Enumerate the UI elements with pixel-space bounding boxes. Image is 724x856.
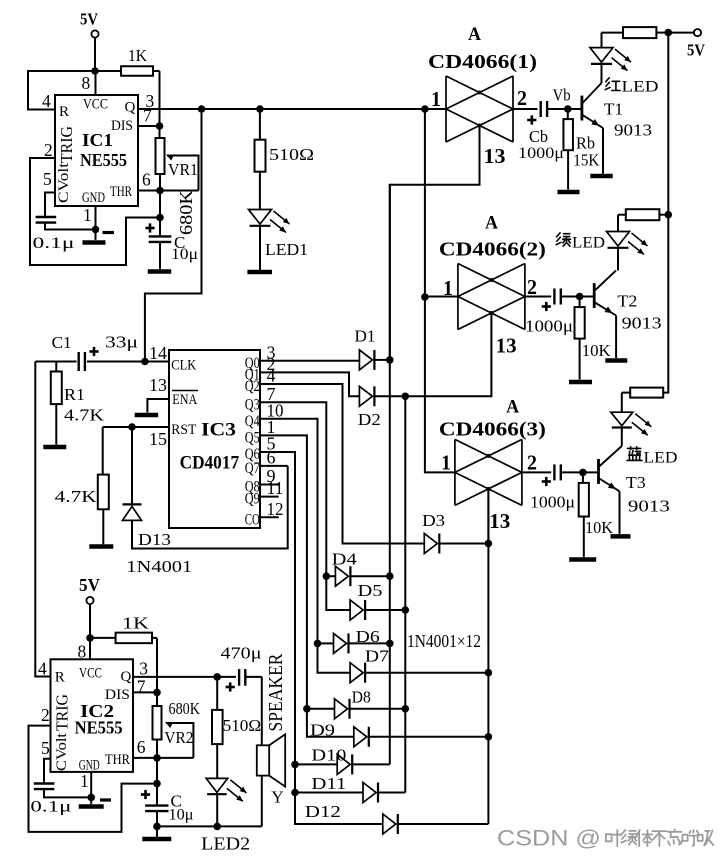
- svg-text:510Ω: 510Ω: [223, 716, 262, 735]
- wire D13 to Q7: [132, 466, 288, 549]
- svg-text:THR: THR: [110, 184, 132, 200]
- svg-text:C1: C1: [52, 333, 72, 352]
- svg-text:33μ: 33μ: [105, 333, 138, 352]
- svg-text:IC3: IC3: [201, 420, 236, 441]
- label LED red text: [622, 79, 659, 96]
- diode D13 1N4001: [123, 427, 193, 576]
- power 5V terminal (IC2): [79, 575, 100, 604]
- ground Rb: [558, 190, 580, 195]
- ground T3 emitter: [611, 534, 631, 539]
- svg-text:1000μ: 1000μ: [525, 317, 573, 336]
- svg-text:10K: 10K: [585, 518, 614, 537]
- svg-text:1000μ: 1000μ: [518, 145, 564, 162]
- label pin13 4066-3: [489, 509, 510, 533]
- svg-text:10K: 10K: [582, 341, 612, 360]
- wire 4066 control input rail: [425, 109, 456, 472]
- wire Q2 to D3: [260, 384, 424, 544]
- label pin3 IC3: [267, 342, 276, 362]
- wire DIS IC2: [133, 691, 157, 693]
- label 680K VR1: [176, 190, 196, 235]
- diode D8: [335, 699, 350, 719]
- label pin4 IC2: [38, 659, 47, 679]
- label CD4066(2): [439, 239, 546, 261]
- svg-text:CVolt: CVolt: [56, 162, 72, 203]
- label green char: [556, 233, 570, 246]
- node ch1-D1: [386, 356, 394, 364]
- node ch3-D7: [485, 669, 493, 677]
- node ch3-D9: [485, 733, 493, 741]
- ground IC2 pin1: [79, 800, 111, 807]
- svg-text:6: 6: [137, 737, 146, 757]
- wire CLK pin14: [145, 361, 169, 363]
- wire D9 out: [369, 736, 489, 738]
- svg-text:VCC: VCC: [79, 666, 102, 682]
- label pin13 IC3: [149, 375, 167, 395]
- label pin7 IC1: [143, 106, 152, 126]
- analog switch U-CD4066(3): [455, 439, 522, 505]
- node ground node IC2: [153, 823, 161, 831]
- label Q IC2: [121, 669, 132, 685]
- label D3 name: [422, 511, 445, 530]
- label A row1: [468, 24, 481, 45]
- label DIS IC1: [111, 118, 133, 134]
- wire Q6 to D11 branch: [295, 792, 363, 794]
- svg-text:Q: Q: [121, 669, 132, 685]
- wire pin1 GND IC2: [90, 772, 92, 804]
- label GND IC2: [79, 758, 100, 774]
- transistor T3 9013: [583, 446, 670, 534]
- node ch1-D6: [386, 640, 394, 648]
- svg-text:1: 1: [80, 771, 89, 791]
- label pin3 IC1: [146, 91, 155, 111]
- transistor T1 9013: [568, 83, 652, 174]
- potentiometer VR1 680K: [156, 126, 199, 191]
- svg-text:D6: D6: [356, 627, 380, 646]
- wire D2 out: [374, 395, 405, 397]
- svg-text:T3: T3: [626, 473, 646, 492]
- label THR IC1: [110, 184, 132, 200]
- label Q1 IC3: [245, 366, 260, 383]
- node Q6-D10 node: [291, 761, 299, 769]
- svg-text:4.7K: 4.7K: [64, 406, 105, 425]
- analog switch U-CD4066(1): [446, 76, 513, 142]
- svg-text:5V: 5V: [80, 10, 99, 29]
- svg-text:5: 5: [43, 169, 52, 189]
- label CVolt IC1: [56, 162, 72, 203]
- node rail row2 resistor: [665, 211, 673, 219]
- resistor LED1k row2: [618, 209, 668, 220]
- node CLK node: [141, 358, 149, 366]
- node ch2-D2: [402, 393, 410, 401]
- label pin14 IC3: [149, 343, 167, 363]
- node Q1 node B: [256, 105, 264, 113]
- svg-text:D2: D2: [358, 410, 381, 429]
- svg-text:1N4001: 1N4001: [126, 557, 192, 576]
- svg-text:Cb: Cb: [529, 127, 548, 146]
- wire THR pin6 IC1: [138, 190, 199, 192]
- capacitor 0.1u IC1: [33, 193, 96, 253]
- resistor LED1k row3: [622, 388, 663, 398]
- node THR node IC1: [156, 187, 164, 195]
- svg-text:D7: D7: [365, 647, 390, 666]
- resistor 1K (IC1): [95, 46, 160, 126]
- label IC2 name: [80, 701, 114, 721]
- svg-text:2: 2: [517, 86, 527, 110]
- node ch1-D4: [386, 572, 394, 580]
- svg-text:Y: Y: [271, 788, 283, 807]
- svg-text:10μ: 10μ: [169, 807, 194, 824]
- timer IC2 NE555 box: [51, 659, 134, 772]
- label pin5 IC2: [41, 738, 50, 758]
- wire Q0 to D1: [260, 360, 359, 362]
- svg-text:510Ω: 510Ω: [269, 145, 314, 164]
- label CD4066(3): [439, 419, 546, 441]
- diode D4: [335, 566, 350, 586]
- wire D7 out: [365, 672, 488, 674]
- label Q9 IC3: [245, 491, 260, 508]
- label LED blue text: [644, 450, 678, 467]
- label Q4 IC3: [245, 413, 260, 430]
- label 680K IC2: [169, 699, 201, 718]
- svg-text:D4: D4: [332, 550, 358, 569]
- LED1: [249, 210, 309, 271]
- wire D10 out: [352, 763, 390, 765]
- label D12 name: [305, 802, 341, 821]
- ground 10K row3: [569, 557, 596, 562]
- wire IC1 Q output bus to 4066 pin1: [138, 108, 447, 110]
- LED blue (row3): [611, 393, 652, 446]
- label pin1 4066-1: [431, 87, 441, 111]
- wire 4066-3 pin2 out: [523, 471, 551, 473]
- wire ground stub IC2: [156, 826, 158, 836]
- wire D8 out: [350, 708, 406, 710]
- resistor R1 4.7K: [51, 362, 105, 445]
- svg-text:2: 2: [527, 275, 537, 299]
- watermark CSDN: [497, 826, 713, 851]
- label pin5 IC1: [43, 169, 52, 189]
- wire Q9 stub: [260, 496, 279, 498]
- ground C 10u IC1: [148, 269, 172, 274]
- label DIS IC2: [105, 687, 130, 703]
- svg-text:VCC: VCC: [83, 97, 108, 113]
- svg-text:11: 11: [267, 478, 284, 498]
- svg-text:1: 1: [441, 451, 451, 475]
- svg-text:T2: T2: [617, 292, 637, 311]
- wire D12 out: [398, 823, 489, 825]
- label A row2: [485, 213, 498, 234]
- wire Q8 stub: [260, 484, 279, 486]
- svg-text:15K: 15K: [573, 151, 600, 170]
- resistor 10K row3: [579, 472, 614, 557]
- label pin3 IC2: [139, 659, 148, 679]
- label CD4066(1): [428, 51, 537, 73]
- svg-text:12: 12: [267, 499, 284, 519]
- wire D5 out: [365, 609, 405, 611]
- svg-text:5V: 5V: [687, 40, 706, 59]
- node ch2-D8: [402, 705, 410, 713]
- label 1N4001x12: [407, 631, 481, 651]
- node 5V node IC2: [86, 634, 94, 642]
- label NE555 IC1: [80, 150, 127, 170]
- svg-text:CLK: CLK: [171, 357, 196, 373]
- wire Q5 to D8 branch: [307, 708, 335, 710]
- label pin4 IC3: [267, 366, 276, 386]
- svg-text:9013: 9013: [628, 497, 670, 516]
- label THR IC2: [105, 752, 130, 768]
- svg-text:A: A: [485, 213, 498, 234]
- label CO IC3: [245, 511, 260, 528]
- svg-text:CD4017: CD4017: [180, 453, 240, 474]
- svg-text:D12: D12: [305, 802, 341, 821]
- svg-text:9013: 9013: [614, 121, 652, 140]
- label D2 name: [358, 410, 381, 429]
- wire CO stub: [260, 516, 279, 518]
- label R IC1: [59, 104, 69, 120]
- label blue char: [627, 447, 642, 461]
- svg-text:CD4066(1): CD4066(1): [428, 51, 537, 73]
- wire THR pin6 IC2: [133, 757, 193, 759]
- resistor LED1k row1: [602, 27, 669, 38]
- node 5V node IC1: [91, 67, 99, 75]
- label pin8 IC1: [82, 73, 91, 93]
- label pin11 IC3: [267, 478, 284, 498]
- diode D3: [424, 534, 439, 554]
- label D8 name: [352, 688, 371, 707]
- node Q node IC2: [213, 673, 221, 681]
- svg-text:ENA: ENA: [172, 392, 197, 408]
- svg-text:13: 13: [489, 509, 510, 533]
- svg-text:2: 2: [41, 705, 50, 725]
- svg-text:15: 15: [149, 429, 167, 449]
- LED2: [201, 778, 250, 853]
- svg-text:0.1μ: 0.1μ: [30, 799, 71, 816]
- svg-text:TRIG: TRIG: [57, 126, 76, 163]
- node 5V rail row1: [665, 29, 673, 37]
- svg-text:A: A: [468, 24, 481, 45]
- label D9 name: [310, 721, 335, 740]
- svg-text:Vb: Vb: [553, 86, 571, 105]
- svg-text:Q3: Q3: [245, 396, 260, 413]
- capacitor 1000u row3: [530, 464, 583, 511]
- svg-text:CO: CO: [245, 511, 260, 528]
- wire 5V rail right: [663, 33, 668, 393]
- label D5 name: [358, 581, 383, 600]
- wire 5V terminal to VCC junction: [94, 38, 96, 71]
- resistor 510ohm (LED1): [255, 109, 315, 210]
- wire Q3 to D4 branch: [326, 575, 335, 577]
- svg-text:THR: THR: [105, 752, 130, 768]
- label D11 name: [311, 774, 346, 793]
- label SPEAKER: [266, 654, 287, 732]
- label red char: [605, 78, 620, 91]
- label Vb: [553, 86, 571, 105]
- label TRIG IC1: [57, 126, 76, 163]
- wire Q6 to D10/D11/D12: [260, 452, 383, 824]
- resistor 10K row2: [575, 297, 612, 380]
- label pin5 IC3: [267, 434, 276, 454]
- wire Q6 to D10 branch: [295, 763, 337, 765]
- svg-text:LED1: LED1: [265, 240, 308, 259]
- svg-text:5V: 5V: [79, 575, 100, 595]
- power 5V terminal (top left): [80, 10, 99, 38]
- label VCC IC2: [79, 666, 102, 682]
- svg-text:8: 8: [82, 73, 91, 93]
- svg-text:SPEAKER: SPEAKER: [266, 654, 287, 732]
- label Q6 IC3: [245, 446, 260, 463]
- label CD4017 IC3: [180, 453, 240, 474]
- LED red (row1): [590, 33, 631, 83]
- label pin7 IC2: [137, 676, 146, 696]
- label CVolt IC2: [54, 732, 70, 771]
- svg-text:VR1: VR1: [168, 160, 198, 179]
- label pin9 IC3: [267, 466, 276, 486]
- node GND node IC1: [92, 226, 100, 234]
- node TRIG/THR node IC1: [156, 214, 164, 222]
- resistor 4.7K (RST): [55, 427, 109, 544]
- node ch2-D5: [402, 606, 410, 614]
- label D4 name: [332, 550, 358, 569]
- label A row3: [506, 397, 519, 418]
- label CLK IC3: [171, 357, 196, 373]
- wire channel3 vertical: [487, 489, 489, 824]
- svg-text:4.7K: 4.7K: [55, 487, 98, 506]
- label NE555 IC2: [75, 718, 123, 738]
- svg-text:Q9: Q9: [245, 491, 260, 508]
- node Vb node: [564, 105, 572, 113]
- analog switch U-CD4066(2): [458, 264, 525, 330]
- label pin4 IC1: [42, 91, 51, 111]
- label Q2 IC3: [245, 378, 260, 395]
- capacitor C1 33u: [35, 333, 145, 372]
- label pin10 IC3: [267, 400, 284, 420]
- wire pin8 VCC IC1: [95, 71, 97, 95]
- wire 4066-1 pin2 out: [513, 108, 538, 110]
- svg-text:D3: D3: [422, 511, 445, 530]
- svg-text:R: R: [55, 670, 65, 686]
- capacitor C 10u IC2: [141, 784, 194, 827]
- label Q3 IC3: [245, 396, 260, 413]
- capacitor 470u: [217, 644, 262, 692]
- svg-text:1000μ: 1000μ: [530, 493, 575, 512]
- label LED green text: [572, 235, 605, 252]
- ground 10K row2: [569, 380, 592, 385]
- svg-text:LED: LED: [572, 235, 605, 252]
- wire channel1 vertical: [389, 185, 391, 765]
- label D1 name: [355, 327, 376, 346]
- wire D4 out: [350, 575, 389, 577]
- wire D3 out: [439, 543, 488, 545]
- svg-text:D10: D10: [311, 746, 346, 765]
- resistor Rb 15K: [563, 109, 599, 190]
- svg-text:A: A: [506, 397, 519, 418]
- svg-text:CSDN @: CSDN @: [497, 826, 601, 851]
- svg-text:CVolt: CVolt: [54, 732, 70, 771]
- svg-text:T1: T1: [604, 100, 623, 119]
- label D6 name: [356, 627, 380, 646]
- svg-text:0.1μ: 0.1μ: [33, 235, 75, 252]
- wire Q4 to D6 branch: [318, 642, 334, 644]
- svg-text:DIS: DIS: [111, 118, 133, 134]
- svg-text:NE555: NE555: [75, 718, 123, 738]
- wire Q4 to D6/D7: [260, 419, 350, 673]
- label Q5 IC3: [245, 429, 260, 446]
- label IC3 name: [201, 420, 236, 441]
- ground C10u IC2: [142, 837, 171, 842]
- capacitor 1000u row2: [525, 289, 580, 336]
- label pin13 4066-2: [496, 334, 517, 358]
- svg-text:LED: LED: [622, 79, 659, 96]
- wire THR down to trig node: [159, 191, 161, 218]
- svg-text:GND: GND: [82, 190, 105, 206]
- label TRIG IC2: [53, 694, 72, 731]
- node LED2 bottom node: [213, 823, 221, 831]
- svg-text:D8: D8: [352, 688, 371, 707]
- label GND IC1: [82, 190, 105, 206]
- svg-text:13: 13: [484, 144, 506, 168]
- svg-text:IC1: IC1: [82, 130, 113, 150]
- node base node T3: [579, 469, 587, 477]
- label pin2 IC2: [41, 705, 50, 725]
- wire D6 out: [349, 642, 390, 644]
- wire 4066-2 pin2 out: [525, 296, 551, 298]
- label pin1 4066-3: [441, 451, 451, 475]
- LED green (row2): [607, 215, 648, 271]
- node Q1 node C: [421, 105, 429, 113]
- svg-text:470μ: 470μ: [221, 644, 262, 663]
- svg-text:1K: 1K: [128, 46, 148, 65]
- svg-text:2: 2: [527, 451, 537, 475]
- wire pin8 VCC IC2: [89, 638, 91, 659]
- wire Q IC2 out: [133, 676, 217, 678]
- svg-text:CD4066(2): CD4066(2): [439, 239, 546, 261]
- svg-text:D5: D5: [358, 581, 383, 600]
- op-amp IC1 NE555 box: [55, 95, 138, 206]
- diode D2: [359, 386, 374, 406]
- wire 5V to IC2 node: [89, 605, 91, 638]
- wire Q3 to D4/D5: [260, 402, 350, 610]
- label VCC IC1: [83, 97, 108, 113]
- label pin6 IC3: [267, 447, 276, 467]
- wire 4066-2 pin13: [405, 313, 491, 396]
- speaker Y: [257, 677, 285, 827]
- svg-text:13: 13: [149, 375, 167, 395]
- svg-text:6: 6: [142, 170, 151, 190]
- node DIS node IC1: [156, 122, 164, 130]
- node DIS node IC2: [153, 689, 161, 697]
- wire Q5 to D8/D9: [260, 435, 354, 736]
- svg-text:1K: 1K: [122, 614, 150, 633]
- wire D11 out: [378, 792, 405, 794]
- wire C1 to IC2 pin4 (left rail): [35, 362, 50, 677]
- label Q IC1: [125, 100, 136, 116]
- wire 5V node to R pin4 loop: [28, 71, 95, 110]
- diode D5: [350, 600, 365, 620]
- potentiometer VR2 680K: [153, 692, 194, 758]
- label pin12 IC3: [267, 499, 284, 519]
- ground LED1: [247, 270, 272, 275]
- wire RST pin15: [103, 426, 169, 428]
- node Q3-D4 node: [323, 572, 331, 580]
- svg-text:680K: 680K: [169, 699, 201, 718]
- wire pin4 R IC2: [35, 676, 50, 678]
- capacitor 0.1u IC2: [30, 759, 91, 816]
- label pin2 4066-2: [527, 275, 537, 299]
- svg-text:D13: D13: [138, 530, 171, 549]
- svg-text:4: 4: [42, 91, 51, 111]
- svg-text:9013: 9013: [622, 314, 662, 333]
- transistor T2 9013: [580, 271, 662, 359]
- svg-text:1: 1: [83, 205, 92, 225]
